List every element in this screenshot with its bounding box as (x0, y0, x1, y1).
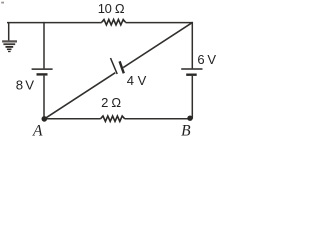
wire diagonal lower segment (44, 73, 115, 119)
ground stub wire (8, 23, 10, 41)
resistor R2 2ohm (101, 116, 125, 121)
svg-text:2 Ω: 2 Ω (101, 95, 121, 110)
node A (42, 116, 48, 122)
battery V3 4V long plate (111, 58, 118, 74)
wire bottom right segment (125, 118, 192, 120)
battery V3 4V short plate (120, 61, 124, 73)
wire left upper (43, 22, 45, 69)
svg-text:B: B (181, 122, 191, 139)
wire top right segment (126, 22, 194, 24)
battery V1 8V short plate (37, 73, 48, 75)
stray mark (1, 2, 4, 4)
resistor R1 10ohm (102, 20, 126, 25)
svg-text:10 Ω: 10 Ω (98, 1, 125, 16)
node B (187, 116, 192, 121)
wire diagonal upper segment (123, 23, 192, 68)
battery V1 8V long plate (32, 68, 53, 70)
svg-text:4 V: 4 V (127, 73, 147, 88)
svg-text:6 V: 6 V (197, 52, 216, 67)
svg-text:8 V: 8 V (16, 77, 34, 92)
wire bottom left segment (44, 118, 101, 120)
ground (2, 41, 17, 51)
wire top left segment (7, 22, 102, 24)
battery V2 6V long plate (181, 68, 202, 70)
battery V2 6V short plate (186, 73, 197, 75)
wire right lower (191, 76, 193, 119)
wire left lower (43, 76, 45, 119)
svg-text:A: A (32, 122, 43, 139)
wire right upper (191, 22, 193, 69)
